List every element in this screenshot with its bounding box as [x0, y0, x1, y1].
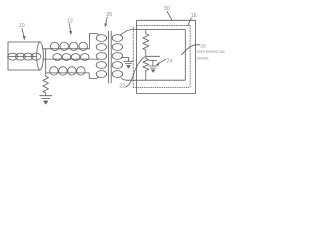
- secondary loop wire top right bottom: [121, 30, 186, 81]
- label 26 leader curve: [182, 45, 200, 55]
- resistor R2: [143, 56, 149, 80]
- svg-text:30: 30: [164, 6, 170, 12]
- wire cable to L2: [43, 59, 99, 60]
- label 16 leader: [188, 18, 191, 25]
- capacitor C1 bottom plate: [149, 60, 156, 62]
- capacitor C1 top plate / tap wire: [146, 55, 160, 57]
- resistor R1: [143, 30, 149, 57]
- ground G3: [40, 96, 52, 99]
- secondary center tap wire: [121, 57, 128, 61]
- cable center line: [8, 56, 37, 58]
- transformer T1 secondary winding: [112, 35, 122, 42]
- label 22 leader curve: [125, 57, 144, 87]
- svg-text:DIFFERENTIAL: DIFFERENTIAL: [197, 49, 227, 54]
- cable right end cap: [37, 42, 44, 70]
- cable 10 body: [8, 42, 40, 70]
- outer solid box 30: [137, 20, 196, 93]
- dashed box 16 left edge: [132, 27, 134, 87]
- transformer T1 core: [108, 31, 111, 83]
- inductor L1 loops: [51, 42, 59, 50]
- shield trunk wire: [45, 49, 47, 77]
- svg-text:20: 20: [106, 12, 112, 18]
- label 30 leader: [167, 11, 172, 19]
- svg-text:16: 16: [191, 13, 197, 19]
- dashed box 16 right edge: [189, 26, 191, 88]
- resistor R3: [43, 76, 49, 95]
- svg-text:12: 12: [67, 19, 73, 25]
- svg-text:22: 22: [119, 83, 125, 89]
- svg-text:10: 10: [19, 23, 25, 29]
- svg-text:24: 24: [167, 58, 173, 64]
- label 24 arrow: [158, 59, 166, 63]
- svg-text:SIGNAL: SIGNAL: [197, 56, 210, 61]
- cable twisted pair chain: [8, 53, 18, 60]
- ground G2: [124, 61, 133, 63]
- inductor L3 loops: [50, 67, 58, 75]
- wire cable to L1: [43, 33, 99, 48]
- dashed box 16 bottom edge: [133, 86, 190, 88]
- ground G1: [149, 66, 157, 68]
- wire trunk to L3: [46, 73, 99, 79]
- capacitor C1 stub: [152, 61, 154, 66]
- label 10 arrow: [22, 28, 24, 36]
- transformer T1 primary winding: [96, 35, 106, 42]
- dashed box 16 top edge: [136, 25, 189, 27]
- label 12 leader: [69, 24, 70, 32]
- inductor L2 loops: [53, 54, 62, 61]
- label 20 leader: [106, 17, 108, 24]
